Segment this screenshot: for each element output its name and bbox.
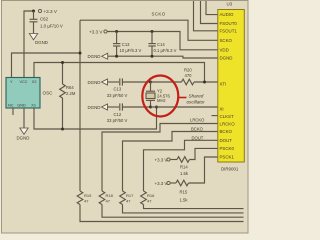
svg-text:R20: R20 xyxy=(184,67,192,72)
resistor R18 47 xyxy=(99,191,105,205)
wire supply ground rail to DGND pin xyxy=(108,56,218,58)
svg-text:+3.3 V: +3.3 V xyxy=(155,157,168,162)
resistor R20 470 xyxy=(182,79,195,85)
svg-text:NC: NC xyxy=(8,103,14,107)
svg-text:X1: X1 xyxy=(31,103,36,107)
resistor R19 47 xyxy=(77,191,83,205)
+3.3V terminal circle mid supply xyxy=(104,30,107,33)
wire OSC pin Y up and right (wire A) xyxy=(12,53,81,78)
svg-text:C13: C13 xyxy=(122,42,130,47)
svg-text:47: 47 xyxy=(106,198,111,203)
svg-text:47: 47 xyxy=(126,198,131,203)
svg-text:SCKO: SCKO xyxy=(220,38,233,43)
svg-text:MHz: MHz xyxy=(157,98,166,103)
capacitor C13 10uF xyxy=(113,32,120,57)
node R64 top on wire B xyxy=(61,61,64,64)
svg-text:VCC: VCC xyxy=(20,80,28,84)
resistor R14 1.5k xyxy=(170,157,189,163)
svg-text:BCKO: BCKO xyxy=(191,127,204,132)
svg-text:1.0 µF/10 V: 1.0 µF/10 V xyxy=(40,23,63,28)
svg-text:0.1 µF/6.3 V: 0.1 µF/6.3 V xyxy=(154,48,177,53)
svg-text:DGND: DGND xyxy=(88,54,101,59)
wire AUDIO from top edge xyxy=(206,1,218,15)
svg-text:PSCK1: PSCK1 xyxy=(220,155,235,160)
svg-text:R14: R14 xyxy=(180,164,188,169)
resistor R17 47 xyxy=(120,191,126,205)
ground DGND crystal top row triangle xyxy=(102,79,108,85)
wire DOUT to R16 xyxy=(144,140,218,191)
wire +3.3V to VCC of OSC xyxy=(24,11,34,78)
svg-text:R64: R64 xyxy=(66,85,74,90)
ground DGND under C62 xyxy=(29,34,37,40)
node A junction of Y wire and SCKO vertical xyxy=(79,52,82,55)
wire OSC pin GND down xyxy=(23,108,25,128)
svg-text:DGND: DGND xyxy=(88,105,101,110)
svg-text:PSCK0: PSCK0 xyxy=(220,146,235,151)
wire bus line from R17 BCKO xyxy=(123,205,244,213)
svg-text:R18: R18 xyxy=(106,193,114,198)
crystal Y2 24.576 MHz xyxy=(146,82,155,107)
node C14 bottom xyxy=(151,55,154,58)
svg-text:C13: C13 xyxy=(114,87,122,92)
+3.3V terminal circle for R15 xyxy=(167,181,170,184)
svg-text:GND: GND xyxy=(17,103,26,107)
svg-text:C12: C12 xyxy=(114,112,122,117)
node crystal top xyxy=(149,81,152,84)
+3.3V terminal circle top-left xyxy=(38,9,41,12)
wire OSC pin X1 down and right (wire C) to XI riser xyxy=(34,107,157,129)
svg-text:R15: R15 xyxy=(180,190,188,195)
svg-text:LRCKO: LRCKO xyxy=(220,122,236,127)
svg-text:DGND: DGND xyxy=(88,80,101,85)
resistor R15 1.5k xyxy=(170,180,188,186)
wire OSC pin NC stub xyxy=(12,108,14,115)
capacitor C12 33pF xyxy=(120,103,151,110)
wire bus line from R18 LRCKO xyxy=(102,205,244,218)
node C13 bottom xyxy=(115,55,118,58)
wire R20 to XTI pin xyxy=(194,81,218,83)
svg-text:2.2M: 2.2M xyxy=(66,91,76,96)
svg-text:R19: R19 xyxy=(84,193,92,198)
svg-text:C62: C62 xyxy=(40,17,49,22)
wire bus line from R19 SCKO xyxy=(80,205,244,222)
svg-text:C14: C14 xyxy=(157,42,165,47)
svg-text:47: 47 xyxy=(147,198,152,203)
wire FSOUT1 from top edge xyxy=(194,1,218,31)
wire BCKO to R17 xyxy=(123,132,218,192)
svg-text:X2: X2 xyxy=(32,80,37,84)
resistor R64 2.2M xyxy=(60,63,66,130)
node XI riser junction xyxy=(155,106,158,109)
node crystal bottom xyxy=(149,106,152,109)
svg-text:470: 470 xyxy=(185,73,193,78)
svg-text:DGND: DGND xyxy=(220,56,233,61)
svg-text:33 pF/50 V: 33 pF/50 V xyxy=(107,118,128,123)
wire CLKST stub xyxy=(212,115,218,117)
svg-text:XI: XI xyxy=(220,107,224,112)
wire +3.3V rail to VDD pin xyxy=(107,32,218,50)
schematic background field xyxy=(0,0,250,236)
node C14 top xyxy=(151,30,154,33)
red callout line xyxy=(179,97,187,99)
wire R14 to PSCK0 pin xyxy=(190,148,218,159)
wire R15 to PSCK1 pin xyxy=(189,157,218,183)
+3.3V terminal circle for R14 xyxy=(167,158,170,161)
node XTI junction with X2 wire xyxy=(203,81,206,84)
callout text Shared oscillator xyxy=(187,94,206,105)
svg-text:Shared: Shared xyxy=(189,94,204,99)
svg-text:AUDIO: AUDIO xyxy=(220,12,234,17)
svg-text:R16: R16 xyxy=(147,193,155,198)
svg-text:+3.3 V: +3.3 V xyxy=(155,181,168,186)
svg-text:+3.3 V: +3.3 V xyxy=(44,9,58,14)
node C13 top xyxy=(115,30,118,33)
wire OSC pin X2 up and right (wire B) to XTI riser xyxy=(34,63,205,83)
svg-text:DOUT: DOUT xyxy=(220,138,233,143)
svg-text:DGND: DGND xyxy=(35,40,48,45)
svg-text:DIR9001: DIR9001 xyxy=(221,166,239,171)
wire crystal bottom row to XI pin xyxy=(151,106,218,108)
red highlight circle around shared crystal xyxy=(142,76,178,117)
wire crystal bottom row xyxy=(108,106,120,108)
svg-text:U3: U3 xyxy=(227,2,233,7)
svg-text:OSC: OSC xyxy=(43,91,54,96)
wire crystal top to R20 xyxy=(151,81,182,83)
svg-text:SCKO: SCKO xyxy=(152,11,166,16)
svg-text:XTI: XTI xyxy=(220,82,227,87)
capacitor C14 0.1uF xyxy=(148,32,155,57)
node R64 bottom on wire C xyxy=(61,128,64,131)
svg-text:1.5k: 1.5k xyxy=(180,171,189,176)
svg-text:10 µF/6.3 V: 10 µF/6.3 V xyxy=(120,48,142,53)
ground DGND under OSC xyxy=(20,128,28,134)
svg-text:oscillator: oscillator xyxy=(187,99,206,104)
svg-text:1.5k: 1.5k xyxy=(180,198,189,203)
resistor R16 47 xyxy=(141,191,147,205)
node +3.3V top-left junction xyxy=(32,10,35,13)
svg-text:LRCKO: LRCKO xyxy=(190,118,205,123)
svg-text:R17: R17 xyxy=(126,193,134,198)
svg-text:47: 47 xyxy=(84,198,89,203)
ground DGND supply rail triangle xyxy=(102,53,108,59)
svg-text:VDD: VDD xyxy=(220,47,229,52)
wire SCKO rail from node A down to R19 and right to SCKO pin xyxy=(80,20,218,191)
svg-text:BCKO: BCKO xyxy=(220,129,233,134)
svg-text:+3.3 V: +3.3 V xyxy=(89,29,103,34)
wire LRCKO to R18 xyxy=(102,124,218,192)
wire crystal top row XTI xyxy=(108,81,120,83)
wire FSOUT0 from top edge xyxy=(201,1,218,24)
svg-text:CLKST: CLKST xyxy=(220,114,234,119)
svg-text:33 pF/50 V: 33 pF/50 V xyxy=(107,93,128,98)
capacitor C13 33pF xyxy=(120,78,151,85)
svg-text:FSOUT0: FSOUT0 xyxy=(220,21,238,26)
capacitor C62 xyxy=(30,11,38,34)
IC U3 DIR9001 body xyxy=(218,10,245,163)
wire bus line from R16 DOUT xyxy=(144,205,244,209)
OSC module box xyxy=(6,78,40,109)
svg-text:DGND: DGND xyxy=(17,135,30,140)
svg-text:DOUT: DOUT xyxy=(192,135,204,140)
ground DGND crystal bottom row triangle xyxy=(102,104,108,110)
svg-text:FSOUT1: FSOUT1 xyxy=(220,28,238,33)
